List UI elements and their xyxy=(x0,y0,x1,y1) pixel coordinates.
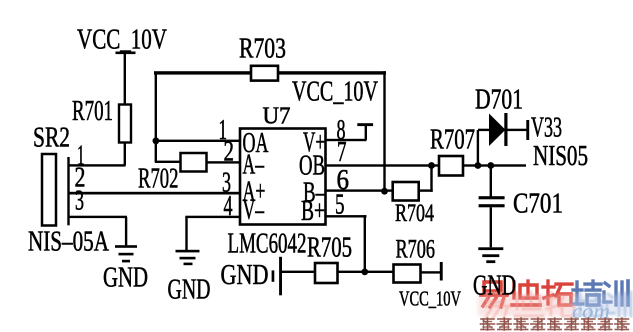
svg-text:VCC_10V: VCC_10V xyxy=(77,25,167,56)
svg-text:3: 3 xyxy=(75,185,84,216)
svg-text:2: 2 xyxy=(224,137,235,168)
svg-text:LMC6042: LMC6042 xyxy=(228,229,307,260)
svg-text:GND: GND xyxy=(221,260,269,291)
svg-text:4: 4 xyxy=(224,191,233,222)
svg-text:R706: R706 xyxy=(396,235,436,264)
svg-text:V–: V– xyxy=(243,195,265,226)
svg-text:VCC_10V: VCC_10V xyxy=(399,287,461,311)
svg-text:R705: R705 xyxy=(307,233,352,264)
svg-text:U7: U7 xyxy=(263,104,291,130)
svg-text:C701: C701 xyxy=(513,189,563,220)
svg-text:GND: GND xyxy=(103,263,148,294)
svg-text:7: 7 xyxy=(337,137,347,168)
svg-text:GND: GND xyxy=(168,275,211,306)
svg-text:VCC_10V: VCC_10V xyxy=(292,77,378,108)
svg-text:NIS05: NIS05 xyxy=(533,141,588,172)
svg-text:5: 5 xyxy=(335,190,345,221)
svg-text:V33: V33 xyxy=(531,113,562,144)
svg-text:NIS–05A: NIS–05A xyxy=(28,227,110,258)
svg-text:R703: R703 xyxy=(239,34,286,65)
svg-text:SR2: SR2 xyxy=(33,123,70,154)
svg-text:D701: D701 xyxy=(475,85,523,116)
svg-text:GND: GND xyxy=(473,271,516,302)
svg-text:R704: R704 xyxy=(395,200,434,227)
svg-text:R707: R707 xyxy=(430,125,475,156)
svg-text:R701: R701 xyxy=(72,96,113,127)
svg-text:B+: B+ xyxy=(301,196,325,227)
svg-text:R702: R702 xyxy=(138,164,179,195)
